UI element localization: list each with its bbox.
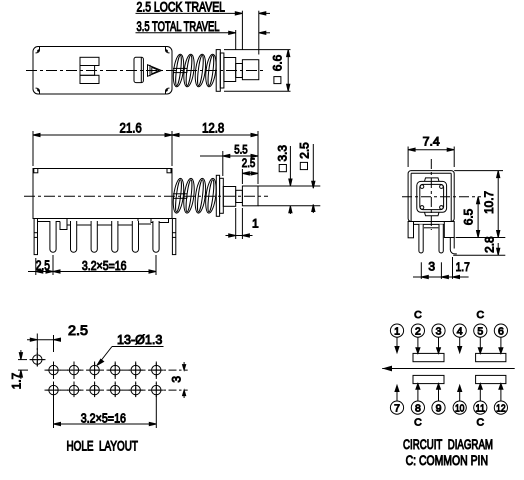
svg-text:10.7: 10.7 (482, 191, 496, 214)
dim 3.2x5=16 (53, 255, 156, 275)
svg-text:3.2×5=16: 3.2×5=16 (81, 411, 126, 426)
pointer triangle (148, 65, 162, 77)
pin 1 circle (390, 324, 403, 337)
pin 4 circle (453, 324, 466, 337)
stem pin 7 with arrow (395, 385, 399, 401)
body inner wall (411, 173, 451, 221)
stem pin 5 (478, 337, 482, 353)
numbers row 1 (394, 325, 504, 337)
base step line (424, 227, 438, 229)
text square 6.6 (270, 54, 284, 83)
bus arrow (384, 366, 392, 370)
corner mark top-left (36, 47, 40, 53)
pin 2 circle (411, 324, 424, 337)
dim 2.5 top (27, 334, 61, 353)
plunger step (223, 187, 235, 207)
mold mark left (34, 169, 38, 173)
svg-text:7.4: 7.4 (423, 135, 441, 149)
svg-text:3: 3 (428, 260, 435, 274)
button outer (417, 181, 447, 212)
leg tip plane line (453, 254, 505, 256)
dim 3.2x5=16 (54, 396, 157, 428)
spring coils (172, 178, 218, 214)
plunger flange (216, 175, 219, 216)
horizontal centerline / 6.5 extension (402, 196, 481, 198)
dim 3 line (413, 275, 469, 278)
svg-text:2.5: 2.5 (242, 156, 256, 170)
svg-text:1.7: 1.7 (456, 260, 470, 274)
pin 12 circle (494, 401, 507, 414)
stem pin 6 (499, 337, 503, 353)
button edge extension lines (258, 186, 320, 206)
stem pin 12 (499, 384, 503, 401)
dim 7.4 (408, 147, 454, 168)
centerline (24, 195, 268, 197)
svg-text:1.7: 1.7 (10, 372, 24, 389)
dim 3.5 total travel leader (136, 31, 271, 34)
pin 11 circle (474, 401, 487, 414)
svg-text:HOLE LAYOUT: HOLE LAYOUT (67, 439, 138, 454)
extra hole (33, 355, 42, 364)
svg-text:6.5: 6.5 (461, 208, 475, 225)
contact bar top right (476, 353, 506, 361)
left mount bracket (408, 222, 413, 238)
contact bar bottom left (413, 375, 444, 383)
svg-text:6.6: 6.6 (270, 54, 284, 71)
numbers row 2 (394, 402, 506, 414)
svg-text:1: 1 (252, 217, 259, 231)
stem pin 2 (416, 337, 420, 353)
push rod (173, 194, 187, 199)
svg-text:C: C (477, 309, 485, 321)
svg-text:10: 10 (455, 402, 465, 414)
svg-text:11: 11 (476, 402, 486, 414)
terminal pin 5 (132, 221, 138, 252)
stem pin 1 with arrow (395, 337, 399, 352)
svg-text:3.3: 3.3 (275, 145, 289, 162)
dim 10.7 (482, 171, 500, 238)
switch body outline (33, 47, 172, 95)
svg-text:8: 8 (415, 402, 421, 414)
stem pin 3 (437, 337, 441, 353)
svg-text:2.5: 2.5 (297, 142, 311, 159)
hole cross ticks (30, 353, 163, 398)
svg-text:12: 12 (496, 402, 506, 414)
button corner circles (420, 185, 443, 209)
hole r2c1 (49, 385, 58, 394)
svg-text:3.5 TOTAL TRAVEL: 3.5 TOTAL TRAVEL (137, 19, 220, 34)
mold mark right (167, 169, 171, 173)
10.7 top extension (454, 170, 503, 172)
dim 2.5 (242, 169, 258, 184)
push rod (173, 68, 187, 72)
svg-text:9: 9 (436, 402, 442, 414)
dim 1 (226, 208, 253, 239)
svg-text:4: 4 (457, 325, 463, 337)
dim 21.6 (33, 131, 172, 166)
corner mark bottom-left (36, 88, 40, 94)
label 13-dia1.3 (97, 347, 164, 366)
svg-text:2: 2 (415, 325, 421, 337)
push button (242, 186, 258, 206)
internal contact bobbin (80, 57, 99, 83)
base skirt tab C (138, 219, 169, 225)
svg-text:C: COMMON PIN: C: COMMON PIN (406, 453, 488, 468)
button bottom key tab (425, 212, 440, 216)
VIEW B : front view (middle) (24, 120, 320, 275)
row 2 centerline (45, 389, 188, 391)
svg-text:2.8: 2.8 (482, 236, 496, 253)
contact bar top left (413, 353, 444, 361)
svg-text:1: 1 (394, 325, 400, 337)
dim 6.5 (461, 197, 479, 238)
plunger step (224, 58, 236, 82)
svg-text:3: 3 (436, 325, 442, 337)
extension lines travel dims (236, 11, 259, 55)
switch body outline (33, 169, 172, 219)
dim 3 and 1.7 extension lines (421, 257, 452, 279)
pin 6 circle (494, 324, 507, 337)
VIEW D : hole layout (bottom left) (10, 323, 188, 454)
VIEW A : side view (top) (26, 0, 291, 94)
VIEW C : end view (right) (402, 135, 505, 279)
svg-text:21.6: 21.6 (120, 120, 142, 135)
pin 10 circle (453, 401, 466, 414)
body outline (408, 171, 454, 222)
row 1 centerline (45, 369, 188, 371)
svg-text:13-Ø1.3: 13-Ø1.3 (117, 332, 162, 347)
corner mark bottom-right (165, 88, 169, 94)
right bracket pin (172, 219, 175, 255)
svg-text:C: C (414, 416, 422, 428)
dim 5.5 (200, 151, 258, 176)
hole r1c1 (49, 365, 58, 374)
pcb plane line (456, 237, 506, 239)
stem pin 4 with arrow (458, 337, 462, 352)
hole r2c4 (111, 385, 120, 394)
right mount bracket (444, 222, 454, 238)
snap leg (450, 238, 457, 254)
plunger neck (236, 190, 243, 202)
svg-text:2.5 LOCK TRAVEL: 2.5 LOCK TRAVEL (137, 0, 226, 15)
pin left (419, 224, 423, 253)
centerline (26, 70, 265, 72)
terminal pin 6 (153, 221, 159, 252)
stem pin 10 with arrow (458, 385, 462, 401)
base notch (60, 222, 67, 230)
svg-text:3.2×5=16: 3.2×5=16 (82, 258, 127, 273)
dim 2.5 bottom (28, 255, 61, 275)
terminal pin 4 (112, 221, 118, 252)
svg-text:6: 6 (498, 325, 504, 337)
plunger collar (220, 53, 224, 88)
base skirt tab A (38, 219, 61, 222)
svg-text:2.5: 2.5 (36, 258, 50, 273)
dim 1.7 (10, 350, 28, 389)
hole r2c2 (69, 385, 78, 394)
column centerlines (54, 362, 157, 399)
svg-text:CIRCUIT DIAGRAM: CIRCUIT DIAGRAM (403, 437, 493, 452)
dim 6.6 extension lines (224, 50, 291, 92)
base skirt tab B (67, 219, 138, 226)
spring coils (172, 54, 218, 88)
hole r1c5 (131, 365, 140, 374)
left bracket pin (34, 219, 37, 255)
hole r1c3 (90, 365, 99, 374)
common bus line (382, 368, 515, 370)
vertical centerline (430, 159, 432, 230)
hole r2c3 (90, 385, 99, 394)
svg-text:C: C (414, 309, 422, 321)
pin 5 circle (474, 324, 487, 337)
terminal pin 2 (71, 221, 77, 252)
push button (242, 60, 258, 80)
contact bar bottom right (476, 375, 506, 383)
svg-text:2.5: 2.5 (68, 323, 88, 338)
hole r1c6 (152, 365, 161, 374)
pin 7 circle (390, 401, 403, 414)
pin 3 circle (432, 324, 445, 337)
svg-text:5.5: 5.5 (234, 143, 248, 157)
dim square 3.3 (275, 145, 292, 214)
svg-text:5: 5 (477, 325, 483, 337)
button inner (420, 184, 444, 209)
corner mark top-right (165, 47, 169, 53)
VIEW E : circuit diagram (bottom right) (382, 309, 515, 468)
terminal pin 1 (50, 221, 56, 252)
svg-text:7: 7 (394, 402, 400, 414)
stem pin 8 (416, 384, 420, 401)
plunger collar (220, 178, 224, 213)
base line (414, 223, 445, 225)
dim 2.5 lock travel leader (136, 12, 271, 15)
terminal pin 3 (91, 221, 97, 252)
stem pin 11 (478, 384, 482, 401)
dim 2.8 (482, 236, 500, 255)
pin 9 circle (432, 401, 445, 414)
hole r1c4 (111, 365, 120, 374)
plunger flange (216, 50, 220, 92)
dim 12.8 (172, 131, 258, 184)
extra hole centermarks (30, 348, 46, 368)
svg-text:12.8: 12.8 (202, 120, 224, 135)
hole r1c2 (69, 365, 78, 374)
svg-text:C: C (477, 416, 485, 428)
stem pin 9 (437, 384, 441, 401)
slider bar (134, 57, 143, 82)
dim 3 right (170, 362, 186, 398)
svg-text:3: 3 (170, 376, 184, 383)
hole r2c5 (131, 385, 140, 394)
plunger neck (236, 64, 243, 78)
button top key tab (425, 178, 440, 182)
dim 6.6 dimension line (287, 50, 290, 92)
pin right (439, 224, 443, 253)
pin 8 circle (411, 401, 424, 414)
hole r2c6 (152, 385, 161, 394)
dim square 2.5 (297, 142, 315, 213)
